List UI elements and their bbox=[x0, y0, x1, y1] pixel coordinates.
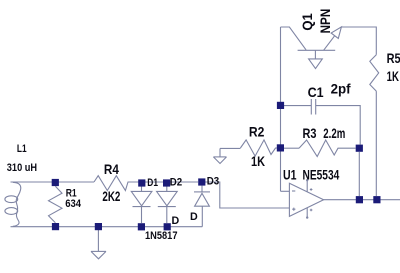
svg-text:R3: R3 bbox=[303, 125, 317, 141]
svg-text:D3: D3 bbox=[207, 175, 220, 187]
svg-text:310 uH: 310 uH bbox=[7, 162, 37, 174]
svg-text:R2: R2 bbox=[249, 124, 265, 140]
svg-text:2.2m: 2.2m bbox=[323, 125, 345, 141]
svg-text:U1: U1 bbox=[283, 167, 297, 183]
svg-text:D: D bbox=[190, 211, 198, 223]
svg-text:R4: R4 bbox=[104, 161, 119, 177]
svg-text:1N5817: 1N5817 bbox=[145, 230, 178, 242]
svg-text:NE5534: NE5534 bbox=[303, 167, 340, 183]
svg-text:634: 634 bbox=[65, 198, 81, 210]
svg-text:NPN: NPN bbox=[317, 9, 333, 34]
svg-text:D2: D2 bbox=[170, 177, 182, 189]
svg-text:R5: R5 bbox=[387, 50, 400, 66]
svg-text:1K: 1K bbox=[387, 68, 399, 84]
svg-text:D1: D1 bbox=[147, 177, 158, 189]
svg-text:2K2: 2K2 bbox=[102, 188, 120, 204]
svg-text:Q1: Q1 bbox=[299, 13, 315, 31]
svg-text:2pf: 2pf bbox=[331, 81, 351, 97]
svg-text:1K: 1K bbox=[251, 153, 265, 169]
svg-text:D: D bbox=[172, 215, 180, 227]
svg-text:L1: L1 bbox=[17, 143, 27, 155]
svg-text:C1: C1 bbox=[308, 84, 324, 100]
